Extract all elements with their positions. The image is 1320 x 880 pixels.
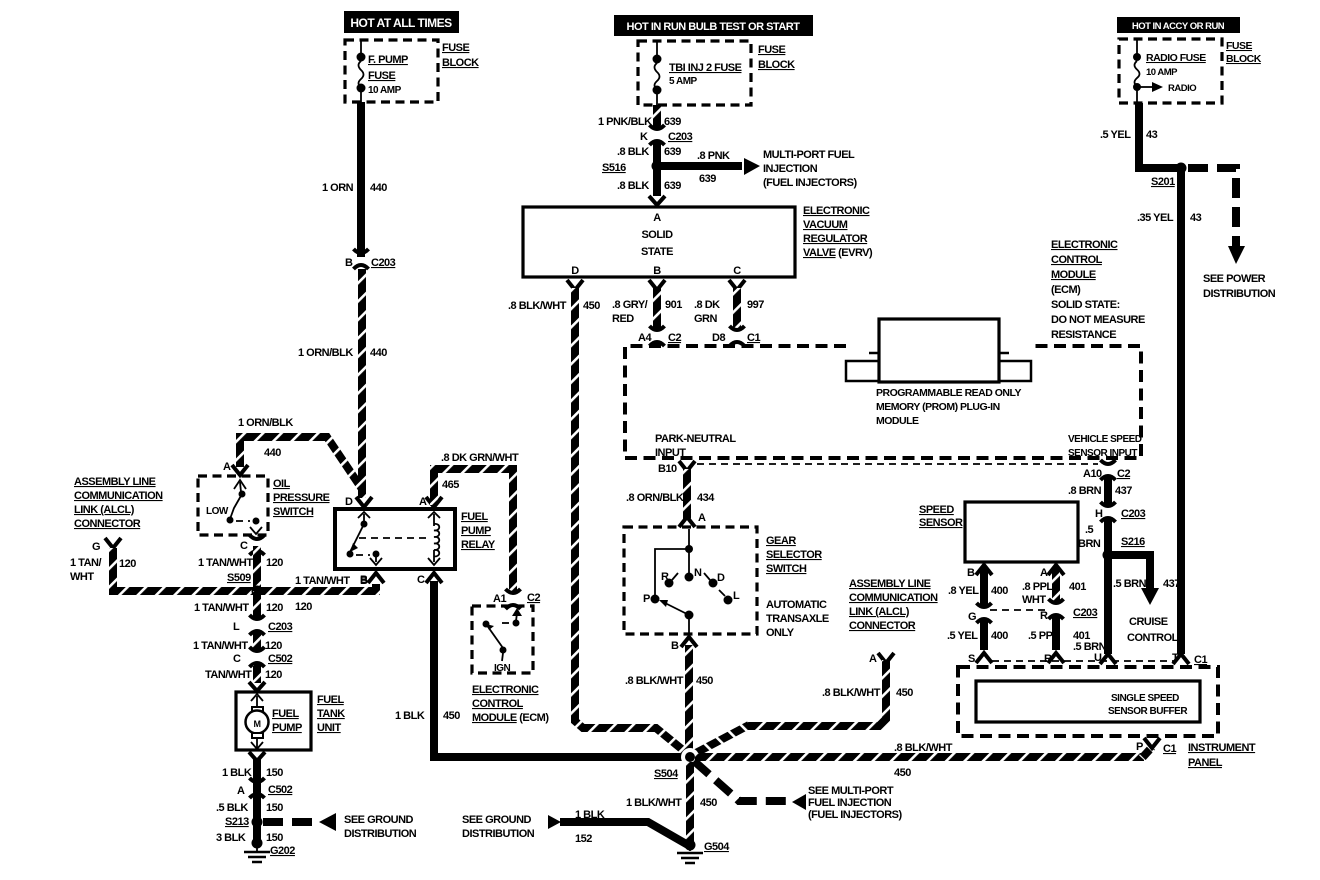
- wire relay C down to S504 (1 BLK 450): [395, 581, 687, 757]
- svg-text:L: L: [233, 621, 240, 633]
- svg-text:G202: G202: [270, 845, 295, 857]
- ground G504: [677, 840, 730, 864]
- connector R C203: [1040, 599, 1098, 622]
- fuse block box (left): [345, 40, 479, 102]
- terminal into fuel tank unit: [249, 682, 265, 691]
- svg-text:PRESSURE: PRESSURE: [273, 492, 330, 504]
- terminal R buffer: [1044, 653, 1064, 665]
- svg-text:P: P: [643, 593, 650, 605]
- svg-text:639: 639: [664, 180, 681, 192]
- wire .8 YEL 400: [948, 568, 1008, 606]
- svg-text:450: 450: [894, 767, 911, 779]
- svg-text:PANEL: PANEL: [1188, 757, 1223, 769]
- wire .8 BLK 639: [617, 142, 681, 196]
- terminal D fuel pump relay: [345, 496, 372, 508]
- svg-text:S213: S213: [225, 816, 249, 828]
- svg-text:450: 450: [896, 687, 913, 699]
- EVRV label: [803, 205, 873, 259]
- svg-text:401: 401: [1069, 581, 1086, 593]
- svg-text:VACUUM: VACUUM: [803, 219, 848, 231]
- svg-text:997: 997: [747, 299, 764, 311]
- svg-text:S: S: [968, 653, 975, 665]
- svg-text:FUSE: FUSE: [442, 42, 470, 54]
- svg-text:GRN: GRN: [694, 313, 718, 325]
- instrument panel label: [1188, 742, 1256, 769]
- svg-text:.8 YEL: .8 YEL: [948, 585, 979, 597]
- label .5 BLK 150: [216, 802, 283, 814]
- terminal P C1 instrument panel: [1136, 738, 1176, 755]
- svg-text:FUEL: FUEL: [461, 511, 489, 523]
- svg-text:120: 120: [265, 669, 282, 681]
- svg-text:PUMP: PUMP: [272, 722, 302, 734]
- svg-text:ASSEMBLY LINE: ASSEMBLY LINE: [74, 476, 156, 488]
- svg-text:401: 401: [1073, 630, 1090, 642]
- fuel pump motor: [246, 694, 302, 749]
- svg-text:REGULATOR: REGULATOR: [803, 233, 868, 245]
- wire S509 down (1 TAN/WHT 120): [194, 591, 283, 620]
- fuse F.PUMP 10A: [357, 40, 409, 102]
- svg-text:TBI INJ 2 FUSE: TBI INJ 2 FUSE: [669, 62, 742, 74]
- svg-text:PARK-NEUTRAL: PARK-NEUTRAL: [655, 433, 736, 445]
- wire .5 BRN to S216: [1078, 520, 1108, 654]
- svg-text:P: P: [1136, 741, 1143, 753]
- label 3 BLK 150: [216, 832, 283, 844]
- svg-text:.5 BLK: .5 BLK: [216, 802, 248, 814]
- connector K C203: [640, 125, 693, 145]
- svg-text:FUSE: FUSE: [758, 44, 786, 56]
- svg-text:DISTRIBUTION: DISTRIBUTION: [1203, 288, 1276, 300]
- dashed tie lines: [990, 610, 1174, 661]
- svg-text:MODULE: MODULE: [876, 415, 919, 427]
- connector G: [968, 603, 992, 623]
- wire .8 BLK/WHT 450 gear selector to S504: [625, 645, 713, 753]
- svg-text:K: K: [640, 131, 648, 143]
- header HOT IN ACCY OR RUN: [1117, 17, 1240, 33]
- svg-text:SENSOR INPUT: SENSOR INPUT: [1068, 448, 1137, 459]
- splice S201: [1151, 163, 1187, 189]
- splice S516: [602, 161, 663, 175]
- svg-text:RESISTANCE: RESISTANCE: [1051, 329, 1116, 341]
- svg-text:FUEL: FUEL: [272, 708, 300, 720]
- svg-text:SEE MULTI-PORT: SEE MULTI-PORT: [808, 785, 894, 797]
- svg-text:D: D: [571, 265, 579, 277]
- svg-text:1 BLK: 1 BLK: [575, 809, 605, 821]
- fuel tank unit box: [236, 692, 345, 750]
- svg-text:BLOCK: BLOCK: [442, 57, 479, 69]
- terminal B EVRV: [649, 280, 665, 290]
- svg-text:150: 150: [266, 767, 283, 779]
- svg-text:437: 437: [1163, 578, 1180, 590]
- svg-text:.8 BLK/WHT: .8 BLK/WHT: [625, 675, 684, 687]
- wire S504 to instrument panel (.8 BLK/WHT 450): [695, 742, 1152, 779]
- svg-text:(ECM): (ECM): [1051, 284, 1081, 296]
- svg-text:MEMORY (PROM) PLUG-IN: MEMORY (PROM) PLUG-IN: [876, 401, 1000, 413]
- svg-text:MULTI-PORT FUEL: MULTI-PORT FUEL: [763, 149, 855, 161]
- svg-text:COMMUNICATION: COMMUNICATION: [74, 490, 163, 502]
- wire 1 ORN/BLK 440: [298, 269, 387, 498]
- wire .8 ORN/BLK 434: [626, 469, 715, 520]
- svg-text:SENSOR BUFFER: SENSOR BUFFER: [1108, 706, 1188, 717]
- svg-text:.5 BRN: .5 BRN: [1113, 578, 1147, 590]
- svg-text:400: 400: [991, 630, 1008, 642]
- svg-text:.5 BRN: .5 BRN: [1073, 641, 1107, 653]
- ALCL connector text (middle): [849, 578, 938, 632]
- wire 1 BLK/WHT 450 S504 to G504: [626, 762, 717, 843]
- svg-text:.8 BLK: .8 BLK: [617, 146, 649, 158]
- svg-text:INJECTION: INJECTION: [763, 163, 818, 175]
- svg-text:GEAR: GEAR: [766, 535, 796, 547]
- svg-text:C203: C203: [1073, 607, 1098, 619]
- svg-text:C502: C502: [268, 653, 293, 665]
- svg-text:HOT IN RUN BULB TEST OR START: HOT IN RUN BULB TEST OR START: [627, 21, 801, 33]
- splice S504: [654, 748, 699, 780]
- svg-text:43: 43: [1190, 212, 1202, 224]
- terminal C below relay: [417, 573, 442, 586]
- svg-text:C203: C203: [371, 257, 396, 269]
- wire .8 DK GRN/WHT 465 relay A to ECM A1: [434, 452, 519, 592]
- svg-text:VEHICLE SPEED: VEHICLE SPEED: [1068, 434, 1142, 445]
- wire .8 BRN 437: [1068, 478, 1132, 505]
- terminal T buffer: [1172, 652, 1207, 666]
- svg-text:10 AMP: 10 AMP: [1146, 67, 1178, 78]
- svg-text:B: B: [360, 574, 368, 586]
- connector C below oil pressure switch: [240, 535, 265, 555]
- svg-text:120: 120: [266, 602, 283, 614]
- S516 arrow to multi-port fuel injection: [661, 149, 857, 189]
- terminal G ALCL: [70, 538, 136, 583]
- svg-text:120: 120: [265, 640, 282, 652]
- ground G202: [244, 838, 295, 863]
- svg-text:C203: C203: [1121, 508, 1146, 520]
- terminal A oil pressure switch: [223, 461, 248, 475]
- svg-text:ELECTRONIC: ELECTRONIC: [472, 684, 539, 696]
- svg-text:CONNECTOR: CONNECTOR: [74, 518, 141, 530]
- svg-text:SPEED: SPEED: [919, 504, 954, 516]
- svg-text:SWITCH: SWITCH: [273, 506, 314, 518]
- svg-text:LINK (ALCL): LINK (ALCL): [74, 504, 135, 516]
- ALCL connector text (left): [74, 476, 163, 530]
- svg-text:G504: G504: [704, 841, 730, 853]
- gear selector labels: [766, 535, 829, 639]
- svg-text:5 AMP: 5 AMP: [669, 76, 698, 87]
- svg-text:CONTROL: CONTROL: [472, 698, 524, 710]
- wire .5 PPL 401: [1028, 617, 1090, 650]
- svg-text:450: 450: [443, 710, 460, 722]
- terminal A ALCL: [869, 653, 894, 665]
- svg-text:120: 120: [119, 558, 136, 570]
- wire 1 ORN 440: [322, 102, 387, 257]
- terminal A fuel pump relay: [419, 496, 442, 508]
- svg-text:A4: A4: [638, 332, 652, 344]
- svg-text:FUEL INJECTION: FUEL INJECTION: [808, 797, 892, 809]
- svg-text:C: C: [733, 265, 741, 277]
- splice S509: [227, 572, 263, 597]
- terminal B below relay: [360, 573, 384, 586]
- wire 1 BLK 150: [222, 758, 283, 843]
- svg-text:B: B: [967, 567, 975, 579]
- svg-text:UNIT: UNIT: [317, 722, 341, 734]
- svg-text:RED: RED: [612, 313, 634, 325]
- svg-text:G: G: [92, 541, 100, 553]
- svg-text:450: 450: [700, 797, 717, 809]
- svg-text:B: B: [653, 265, 661, 277]
- svg-text:B: B: [671, 640, 679, 652]
- svg-text:450: 450: [583, 300, 600, 312]
- svg-text:901: 901: [665, 299, 682, 311]
- wire G to S509 (1 TAN/WHT 120): [113, 548, 376, 613]
- svg-text:639: 639: [664, 146, 681, 158]
- svg-text:SENSOR: SENSOR: [919, 517, 963, 529]
- svg-text:10 AMP: 10 AMP: [368, 85, 402, 96]
- svg-text:(FUEL INJECTORS): (FUEL INJECTORS): [763, 177, 857, 189]
- splice S213: [225, 816, 263, 828]
- svg-text:.8 PNK: .8 PNK: [697, 150, 730, 162]
- wire .5 YEL 43 to S201: [1100, 103, 1181, 168]
- wire .8 DK GRN 997: [694, 288, 764, 330]
- svg-text:1 ORN/BLK: 1 ORN/BLK: [238, 417, 293, 429]
- svg-text:PUMP: PUMP: [461, 525, 491, 537]
- wire .35 YEL 43 S201 to instrument panel T: [1137, 168, 1202, 654]
- svg-text:CONNECTOR: CONNECTOR: [849, 620, 916, 632]
- svg-text:B: B: [345, 257, 353, 269]
- EVRV box: [523, 207, 795, 277]
- svg-text:1 TAN/WHT: 1 TAN/WHT: [295, 575, 350, 587]
- svg-text:.8 DK: .8 DK: [694, 299, 720, 311]
- svg-text:1 ORN/BLK: 1 ORN/BLK: [298, 347, 353, 359]
- svg-text:1 ORN: 1 ORN: [322, 182, 354, 194]
- svg-text:.5: .5: [1085, 524, 1094, 536]
- ECM main dashed box: [625, 346, 1142, 459]
- svg-text:1 TAN/: 1 TAN/: [70, 557, 101, 569]
- svg-text:SOLID STATE:: SOLID STATE:: [1051, 299, 1120, 311]
- wire 1 PNK/BLK 639: [598, 105, 681, 128]
- svg-text:A: A: [653, 212, 661, 224]
- header HOT AT ALL TIMES: [344, 11, 459, 33]
- svg-text:R: R: [661, 571, 669, 583]
- terminal into EVRV: [649, 196, 665, 205]
- svg-text:.8 BLK: .8 BLK: [617, 180, 649, 192]
- svg-text:1 PNK/BLK: 1 PNK/BLK: [598, 116, 652, 128]
- wire (TAN/WHT 120): [205, 665, 282, 683]
- svg-text:C: C: [233, 653, 241, 665]
- svg-text:SEE GROUND: SEE GROUND: [462, 814, 532, 826]
- svg-text:INPUT: INPUT: [655, 447, 686, 459]
- svg-text:.8 ORN/BLK: .8 ORN/BLK: [626, 492, 684, 504]
- connector A4 C2: [638, 326, 681, 346]
- svg-text:120: 120: [295, 601, 312, 613]
- svg-text:PROGRAMMABLE READ ONLY: PROGRAMMABLE READ ONLY: [876, 387, 1021, 399]
- instrument panel dashed box: [958, 667, 1218, 736]
- svg-text:A: A: [419, 496, 427, 508]
- wire .8 PPL/WHT 401: [1022, 568, 1086, 606]
- svg-text:A: A: [698, 512, 706, 524]
- svg-text:RADIO FUSE: RADIO FUSE: [1146, 52, 1206, 64]
- svg-text:C502: C502: [268, 784, 293, 796]
- relay interior switch: [347, 512, 383, 565]
- svg-text:OIL: OIL: [273, 478, 291, 490]
- svg-text:.5 YEL: .5 YEL: [1100, 129, 1131, 141]
- svg-text:TRANSAXLE: TRANSAXLE: [766, 613, 829, 625]
- svg-text:A: A: [237, 785, 245, 797]
- svg-text:639: 639: [664, 116, 681, 128]
- connector L C203: [233, 615, 293, 635]
- svg-text:.5 PPL: .5 PPL: [1028, 630, 1059, 642]
- wire .8 BLK/WHT 450 from EVRV D to S504: [508, 288, 689, 755]
- svg-text:FUSE: FUSE: [1226, 40, 1253, 52]
- S201 see power distribution arrow: [1188, 168, 1276, 300]
- svg-text:C2: C2: [1117, 468, 1130, 480]
- wire .5 YEL 400: [947, 621, 1008, 650]
- ECM small box label: [472, 684, 549, 724]
- splice S216: [1103, 536, 1146, 561]
- svg-text:A: A: [869, 653, 877, 665]
- terminal C EVRV: [729, 280, 745, 290]
- fuel pump relay box: [335, 509, 496, 569]
- svg-text:M: M: [254, 719, 261, 729]
- svg-text:FUSE: FUSE: [368, 70, 396, 82]
- svg-text:440: 440: [370, 182, 387, 194]
- svg-text:STATE: STATE: [641, 246, 673, 258]
- wire .8 BLK/WHT 450 ALCL to S504: [692, 660, 913, 755]
- connector A10 C2: [1083, 460, 1130, 480]
- fuse RADIO 10A: [1133, 39, 1206, 103]
- svg-text:INSTRUMENT: INSTRUMENT: [1188, 742, 1256, 754]
- svg-text:43: 43: [1146, 129, 1158, 141]
- terminal A gear selector: [679, 512, 706, 527]
- connector A1 C2: [493, 589, 540, 609]
- svg-text:C: C: [240, 540, 248, 552]
- S213 see-ground arrow: [263, 813, 417, 840]
- svg-text:C2: C2: [668, 332, 681, 344]
- svg-text:.35 YEL: .35 YEL: [1137, 212, 1174, 224]
- svg-text:437: 437: [1115, 485, 1132, 497]
- relay interior coil: [359, 512, 440, 565]
- speed sensor box: [919, 502, 1078, 562]
- svg-text:.8 BLK/WHT: .8 BLK/WHT: [822, 687, 881, 699]
- label .5 BRN + U: [1073, 641, 1107, 664]
- svg-text:SWITCH: SWITCH: [766, 563, 807, 575]
- svg-text:A1: A1: [493, 593, 506, 605]
- svg-text:1 TAN/WHT: 1 TAN/WHT: [193, 640, 248, 652]
- svg-text:150: 150: [266, 832, 283, 844]
- svg-text:BLOCK: BLOCK: [1226, 53, 1262, 65]
- radio tap arrow: [1137, 82, 1196, 94]
- svg-text:S509: S509: [227, 572, 251, 584]
- svg-text:DISTRIBUTION: DISTRIBUTION: [462, 828, 535, 840]
- svg-text:L: L: [733, 590, 740, 602]
- S216 cruise control arrow (.5 BRN 437): [1112, 555, 1180, 644]
- header HOT IN RUN BULB TEST OR START: [614, 15, 813, 36]
- connector C C502: [233, 647, 293, 667]
- svg-text:400: 400: [991, 585, 1008, 597]
- label .8 BLK 639 lower: [617, 180, 681, 192]
- ECM small box (A1): [472, 606, 533, 674]
- svg-text:WHT: WHT: [1022, 594, 1046, 606]
- svg-text:450: 450: [696, 675, 713, 687]
- svg-text:R: R: [1044, 653, 1052, 665]
- svg-text:MODULE: MODULE: [1051, 269, 1096, 281]
- svg-text:H: H: [1095, 508, 1103, 520]
- svg-text:T: T: [1172, 652, 1179, 664]
- svg-text:S216: S216: [1121, 536, 1145, 548]
- svg-text:465: 465: [442, 479, 459, 491]
- svg-text:C: C: [417, 574, 425, 586]
- svg-text:CONTROL: CONTROL: [1127, 632, 1179, 644]
- fuse block box (middle): [638, 41, 795, 105]
- svg-text:CONTROL: CONTROL: [1051, 254, 1103, 266]
- svg-text:ELECTRONIC: ELECTRONIC: [1051, 239, 1118, 251]
- svg-text:1 BLK/WHT: 1 BLK/WHT: [626, 797, 682, 809]
- terminal B gear selector: [671, 637, 697, 652]
- svg-text:1 BLK: 1 BLK: [395, 710, 425, 722]
- svg-text:.8 DK GRN/WHT: .8 DK GRN/WHT: [441, 452, 519, 464]
- svg-text:150: 150: [266, 802, 283, 814]
- svg-text:C1: C1: [1194, 654, 1207, 666]
- svg-text:B10: B10: [658, 463, 677, 475]
- svg-text:G: G: [968, 611, 976, 623]
- svg-text:SEE POWER: SEE POWER: [1203, 273, 1266, 285]
- svg-text:HOT AT ALL TIMES: HOT AT ALL TIMES: [350, 16, 452, 30]
- svg-text:HOT IN ACCY OR RUN: HOT IN ACCY OR RUN: [1132, 21, 1225, 32]
- wire .8 GRY/RED 901: [612, 288, 682, 330]
- terminal B10: [658, 461, 1098, 475]
- svg-text:CRUISE: CRUISE: [1129, 616, 1168, 628]
- S504 see multi-port arrow: [694, 761, 902, 821]
- oil pressure switch: [198, 476, 330, 535]
- svg-text:SEE GROUND: SEE GROUND: [344, 814, 414, 826]
- svg-text:LINK (ALCL): LINK (ALCL): [849, 606, 910, 618]
- gear selector switch box: [624, 527, 757, 634]
- svg-text:C2: C2: [527, 592, 540, 604]
- PROM module: [846, 319, 1031, 427]
- svg-text:ELECTRONIC: ELECTRONIC: [803, 205, 870, 217]
- svg-text:1 BLK: 1 BLK: [222, 767, 252, 779]
- wire (1 TAN/WHT 120): [193, 633, 282, 652]
- svg-text:1 TAN/WHT: 1 TAN/WHT: [198, 557, 253, 569]
- svg-text:.8 BRN: .8 BRN: [1068, 485, 1102, 497]
- svg-text:.8 PPL/: .8 PPL/: [1022, 581, 1056, 593]
- svg-text:N: N: [694, 567, 702, 579]
- svg-text:AUTOMATIC: AUTOMATIC: [766, 599, 827, 611]
- svg-text:DISTRIBUTION: DISTRIBUTION: [344, 828, 417, 840]
- svg-text:3 BLK: 3 BLK: [216, 832, 246, 844]
- svg-text:D: D: [717, 572, 725, 584]
- svg-text:FUEL: FUEL: [317, 694, 345, 706]
- svg-text:.5 YEL: .5 YEL: [947, 630, 978, 642]
- terminal below fuel tank unit: [249, 752, 265, 761]
- svg-text:440: 440: [370, 347, 387, 359]
- svg-text:VALVE (EVRV): VALVE (EVRV): [803, 247, 873, 259]
- svg-text:RELAY: RELAY: [461, 539, 496, 551]
- svg-text:152: 152: [575, 833, 592, 845]
- fuse TBI INJ 2 5A: [653, 41, 742, 105]
- terminal D EVRV: [567, 280, 583, 290]
- svg-text:C1: C1: [747, 332, 760, 344]
- svg-text:A10: A10: [1083, 468, 1102, 480]
- terminal B speed sensor: [967, 565, 992, 579]
- svg-text:LOW: LOW: [206, 506, 229, 517]
- connector H C203: [1095, 502, 1146, 522]
- svg-text:BRN: BRN: [1078, 538, 1101, 550]
- svg-text:RADIO: RADIO: [1168, 83, 1196, 94]
- fuse block box (right): [1119, 39, 1262, 103]
- svg-text:C203: C203: [668, 131, 693, 143]
- svg-text:C1: C1: [1163, 743, 1176, 755]
- svg-text:SINGLE SPEED: SINGLE SPEED: [1111, 693, 1179, 704]
- svg-text:BLOCK: BLOCK: [758, 59, 795, 71]
- terminal S buffer: [968, 653, 992, 665]
- svg-text:.8 GRY/: .8 GRY/: [612, 299, 648, 311]
